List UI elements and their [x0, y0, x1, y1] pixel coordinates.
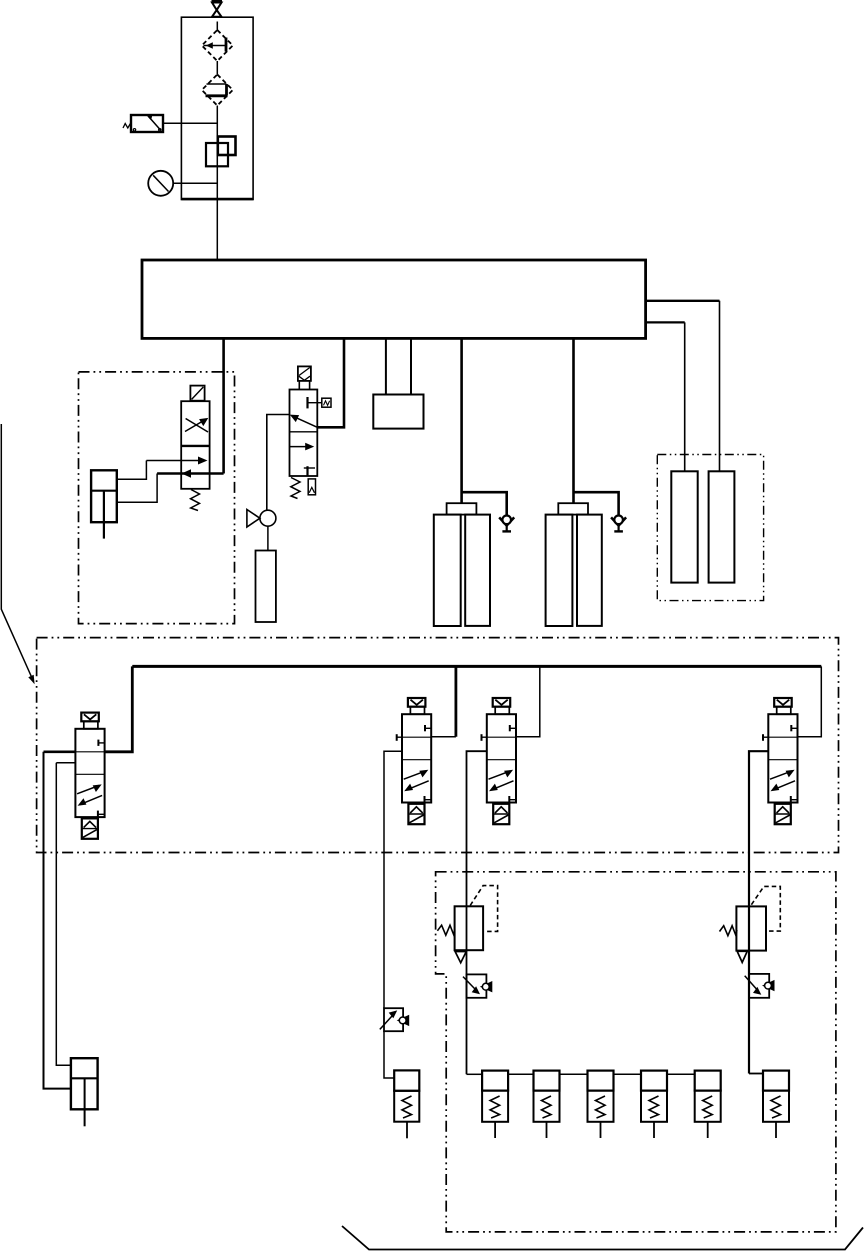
- supply bus line: [132, 665, 821, 668]
- shutoff valve V0 (hourglass): [212, 1, 223, 17]
- leader arrow: [1, 424, 34, 684]
- filter F2 (dashed diamond dryer): [202, 75, 233, 106]
- tank group 2 cap: [558, 503, 588, 514]
- pilot head of valve V3: [298, 366, 311, 389]
- air tank T3: [546, 515, 573, 626]
- exhaust fitting E1: [499, 516, 514, 532]
- valve V3 straight flow arrow: [290, 443, 315, 451]
- junction box: [373, 395, 423, 429]
- wire manifold right to tank T6: [646, 300, 720, 302]
- brake chamber B1: [482, 1071, 508, 1138]
- wire safety valve to riser: [163, 122, 217, 124]
- pressure regulator R0 (overlapping squares): [206, 137, 236, 167]
- valve V2 crossed-path symbol: [185, 418, 208, 432]
- air tank T2: [465, 515, 490, 626]
- wire manifold to air tank group 1: [460, 338, 463, 503]
- valve V3 bottom port marker: [304, 466, 315, 475]
- wire PL1 branch to brake row: [467, 1073, 483, 1075]
- pressure limiter PL1: [437, 886, 497, 963]
- bus drop to valve VB: [431, 666, 456, 736]
- wires manifold to junction box: [386, 338, 411, 394]
- flow control valve FC1: [380, 1008, 409, 1031]
- air tank T1: [434, 515, 461, 626]
- valve VC output line: [467, 751, 487, 1074]
- wire FC1 to brake chamber BB: [384, 1031, 394, 1078]
- safety valve V1: [123, 115, 163, 133]
- pilot valve V3 body: [290, 390, 318, 477]
- dashed enclosure right tanks: [657, 455, 763, 601]
- wire to exhaust 1: [462, 492, 507, 516]
- relay valve VB: [397, 698, 432, 824]
- valve V3 spring: [291, 478, 300, 499]
- solenoid coil of valve V2: [190, 386, 204, 401]
- gauge G1: [148, 171, 173, 196]
- valve VA output lines: [44, 752, 76, 1089]
- wire valve V3 left port down: [267, 415, 290, 511]
- relay valve VC: [482, 698, 517, 824]
- bus drop to valve VA: [105, 666, 133, 751]
- brake chamber BB: [394, 1070, 419, 1138]
- air tank T6: [709, 471, 735, 582]
- valve V2 flow arrow and port wire: [146, 457, 207, 465]
- valve V3 top port marker: [308, 397, 332, 408]
- bus drop to valve VC: [516, 666, 540, 736]
- dashed enclosure parking valve circuit: [79, 372, 235, 624]
- air service unit enclosure: [181, 17, 253, 199]
- throttle check valve TC1: [463, 974, 492, 997]
- valve VB output line: [384, 751, 402, 1008]
- manifold block: [142, 260, 646, 338]
- valve V3 pilot-return box: [308, 479, 315, 495]
- dashed enclosure valve row: [37, 638, 839, 853]
- wire between filters: [216, 61, 218, 75]
- dashed enclosure rear axle unit: [436, 872, 836, 1232]
- brake chamber B4: [641, 1071, 667, 1138]
- chassis bracket line: [342, 1226, 863, 1250]
- wire stub below shutoff: [216, 22, 218, 31]
- tank group 1 cap: [447, 503, 477, 514]
- supply line with arrow (heavy): [157, 469, 224, 477]
- spring brake cylinder C2: [71, 1058, 98, 1126]
- wire manifold to air tank group 2: [572, 338, 575, 503]
- silencer S1: [256, 551, 276, 623]
- pressure limiter PL2: [720, 886, 781, 962]
- wire manifold to parking valve circuit: [222, 338, 225, 473]
- valve VD output line: [749, 751, 768, 1073]
- wire drain to silencer: [267, 526, 269, 550]
- valve V2 body: [181, 401, 209, 489]
- brake chamber B2: [534, 1071, 560, 1138]
- exhaust fitting E2: [611, 516, 626, 532]
- relay valve VA: [75, 713, 104, 839]
- wire gauge to riser: [173, 182, 217, 184]
- wire PL2 branch to brake B6: [749, 1073, 763, 1075]
- wire to exhaust 2: [574, 492, 619, 516]
- valve V3 angled flow path with arrow: [290, 415, 318, 428]
- filter F1 (dashed diamond): [202, 30, 233, 61]
- wire manifold to pilot valve V3: [317, 338, 344, 427]
- relay valve VD: [763, 698, 798, 824]
- throttle check valve TC2: [745, 974, 775, 998]
- air tank T4: [577, 515, 602, 626]
- brake chamber B5: [695, 1071, 721, 1138]
- brake chamber B3: [588, 1071, 614, 1138]
- main riser wire to manifold: [216, 106, 218, 261]
- brake row connecting wires: [508, 1073, 695, 1075]
- air tank T5: [671, 471, 697, 582]
- brake chamber B6: [763, 1071, 789, 1138]
- cylinder C1: [91, 470, 117, 538]
- bus drop to valve VD: [798, 666, 822, 736]
- wire to cylinder lower port: [117, 474, 157, 503]
- valve V2 return spring: [191, 490, 200, 511]
- drain valve D1 (circle with cone): [247, 510, 276, 528]
- wire manifold right to tank T5: [646, 321, 685, 323]
- wire valve port to cylinder top port: [117, 461, 147, 480]
